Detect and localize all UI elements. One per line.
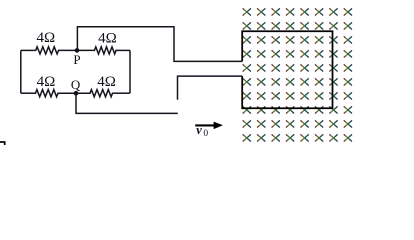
svg-text:4Ω: 4Ω bbox=[36, 30, 55, 46]
svg-text:v: v bbox=[196, 123, 202, 137]
svg-text:P: P bbox=[73, 52, 80, 67]
svg-text:4Ω: 4Ω bbox=[97, 74, 116, 90]
svg-text:Q: Q bbox=[71, 77, 81, 92]
svg-text:4Ω: 4Ω bbox=[37, 74, 56, 90]
svg-text:4Ω: 4Ω bbox=[98, 31, 117, 47]
svg-text:0: 0 bbox=[203, 129, 208, 139]
